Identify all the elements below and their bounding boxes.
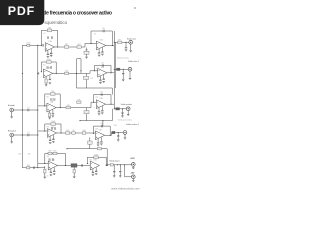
capacitor C26 bbox=[54, 127, 55, 130]
capacitor C24 bbox=[28, 132, 30, 136]
capacitor C13 bbox=[99, 79, 101, 82]
capacitor C34 bbox=[49, 158, 50, 161]
resistor R out E bbox=[110, 164, 113, 166]
terminal salida altos bbox=[129, 40, 133, 44]
wire B out cap drop bbox=[122, 69, 124, 73]
wire link E top bbox=[67, 149, 107, 166]
ground bbox=[85, 57, 88, 58]
junction A2 input bbox=[90, 43, 91, 44]
svg-text:10n: 10n bbox=[101, 54, 104, 56]
junction C out node bbox=[122, 108, 123, 109]
ground bbox=[101, 113, 104, 114]
junction D1 out bbox=[60, 132, 61, 133]
ground bbox=[95, 173, 98, 174]
junction D2 out bbox=[110, 135, 111, 136]
resistor R6 bbox=[118, 40, 122, 44]
wire D1 drop 2 bbox=[52, 135, 54, 139]
resistor R E1 bbox=[44, 169, 46, 173]
op-amp U2A bbox=[42, 66, 55, 77]
wire C2 drop 1 bbox=[98, 107, 100, 111]
svg-text:-15V: -15V bbox=[130, 173, 135, 175]
wire A2 drop 1 bbox=[98, 49, 100, 53]
junction bus L1 band B bbox=[22, 73, 23, 74]
svg-text:10n: 10n bbox=[100, 92, 103, 94]
svg-text:1u: 1u bbox=[28, 107, 30, 109]
junction link B left bbox=[76, 73, 77, 74]
wire C1 drop 2 bbox=[52, 110, 54, 114]
svg-text:10n: 10n bbox=[50, 143, 53, 145]
wire A1 drop 2 bbox=[50, 49, 52, 53]
junction bus L1 band D bbox=[22, 134, 23, 135]
capacitor C20 bbox=[100, 92, 103, 96]
svg-text:10K: 10K bbox=[90, 78, 93, 80]
wire D out cap drop bbox=[117, 133, 119, 136]
wire C2 out bbox=[106, 103, 115, 105]
resistor R out B bbox=[117, 68, 121, 70]
svg-text:R18: R18 bbox=[96, 68, 99, 70]
wire C out cap drop bbox=[122, 109, 124, 113]
capacitor C12 bbox=[101, 63, 104, 67]
ground bbox=[44, 177, 47, 178]
junction B out bus bbox=[114, 69, 115, 70]
wire D2 drop 1 bbox=[97, 139, 99, 143]
svg-text:U5B: U5B bbox=[94, 160, 97, 162]
resistor R link E bbox=[97, 148, 101, 150]
resistor R12 bbox=[51, 121, 56, 125]
op-amp U1B bbox=[95, 40, 108, 50]
PDF badge bbox=[0, 0, 44, 25]
wire D output bbox=[112, 133, 124, 136]
ground bbox=[129, 51, 132, 52]
resistor R B1 bbox=[45, 79, 47, 83]
resistor R7 bbox=[47, 59, 52, 63]
resistor R2 bbox=[47, 27, 52, 31]
op-amp U5B bbox=[88, 160, 101, 170]
capacitor C14 bbox=[103, 78, 105, 81]
svg-text:CN4: CN4 bbox=[114, 125, 117, 127]
wire C1 out to C2 bbox=[56, 102, 96, 107]
capacitor C28 bbox=[52, 138, 54, 141]
svg-text:Salida para medios: Salida para medios bbox=[118, 120, 132, 122]
junction C1 input bbox=[44, 105, 45, 106]
wire D2 input bbox=[94, 132, 96, 134]
svg-text:10n: 10n bbox=[50, 54, 53, 56]
capacitor C23 bbox=[121, 112, 123, 115]
svg-text:U2B: U2B bbox=[101, 67, 104, 69]
junction A2 out bbox=[112, 45, 113, 46]
wire D2 shunt bbox=[89, 137, 91, 148]
capacitor C in B bbox=[38, 72, 39, 75]
ground bbox=[50, 175, 53, 176]
ground bbox=[53, 174, 56, 175]
capacitor C29 bbox=[100, 123, 103, 127]
ground bbox=[124, 138, 127, 139]
resistor R1 bbox=[27, 43, 31, 47]
ground bbox=[99, 82, 102, 83]
capacitor C40 bbox=[95, 170, 97, 173]
resistor R16 bbox=[27, 165, 31, 169]
wire D2 feedback loop bbox=[94, 126, 111, 135]
svg-text:10n: 10n bbox=[100, 81, 103, 83]
svg-text:10n: 10n bbox=[97, 144, 100, 146]
wire B2 drop 2 bbox=[103, 75, 105, 79]
op-amp U5A bbox=[46, 159, 59, 170]
wire E terminal bottom stub bbox=[125, 176, 132, 178]
wire C1 drop 1b bbox=[49, 116, 51, 119]
ground bbox=[125, 50, 128, 51]
terminal salida medios bbox=[126, 107, 130, 111]
wire B2 out bbox=[107, 72, 114, 74]
resistor R C1 bbox=[48, 113, 50, 117]
resistor R D2 shunt bbox=[88, 141, 93, 144]
wire C output bbox=[114, 108, 126, 110]
capacitor C9 bbox=[47, 66, 48, 69]
op-amp U4A bbox=[46, 126, 59, 137]
resistor R inter E bbox=[71, 164, 77, 168]
resistor R3 bbox=[65, 44, 69, 48]
capacitor C27 bbox=[49, 139, 51, 142]
op-amp U4B bbox=[94, 129, 107, 139]
wire link top C bbox=[77, 88, 113, 95]
resistor R B2 shunt bbox=[84, 76, 89, 79]
capacitor C17 bbox=[51, 98, 52, 101]
svg-text:R12: R12 bbox=[43, 65, 46, 67]
wire B output bbox=[114, 68, 128, 70]
terminal V- bbox=[131, 175, 135, 179]
junction link B right bbox=[80, 70, 81, 71]
svg-text:U4B: U4B bbox=[99, 129, 102, 131]
junction B out node bbox=[123, 69, 124, 70]
capacitor C4 bbox=[50, 52, 52, 55]
capacitor C in A bbox=[42, 44, 43, 47]
wire E2 feedback loop bbox=[87, 157, 106, 165]
wire B1 drop 2 bbox=[49, 75, 51, 79]
wire C2 drop 2 bbox=[101, 106, 103, 110]
ground bbox=[101, 54, 104, 55]
resistor R8 bbox=[65, 71, 69, 75]
wire E bottom feed bbox=[22, 167, 44, 169]
ground bbox=[122, 80, 125, 81]
wire D2 drop 2 bbox=[100, 137, 102, 141]
svg-text:Salida medios: Salida medios bbox=[121, 104, 132, 106]
ground bbox=[10, 117, 13, 118]
resistor R15 bbox=[82, 130, 86, 134]
svg-text:1u: 1u bbox=[28, 132, 30, 134]
ground bbox=[73, 177, 76, 178]
wire E cap drop 2 bbox=[119, 165, 121, 171]
junction D2 input bbox=[93, 133, 94, 134]
wire A2 gain leg bbox=[86, 48, 88, 57]
ground bbox=[132, 168, 135, 169]
wire B2 drop 1 bbox=[99, 76, 101, 80]
wire E2 shunt bbox=[73, 167, 75, 169]
svg-text:U3B: U3B bbox=[100, 98, 103, 100]
wire E2 drop 1 bbox=[92, 169, 94, 172]
resistor R out C bbox=[116, 108, 120, 110]
terminal salida medios bajos bbox=[123, 131, 127, 135]
capacitor C5 bbox=[102, 28, 105, 32]
terminal V+ bbox=[131, 163, 135, 167]
svg-text:R28: R28 bbox=[96, 97, 99, 99]
svg-text:100n: 100n bbox=[27, 43, 31, 45]
resistor R9 bbox=[50, 91, 55, 95]
capacitor C36 bbox=[50, 171, 52, 174]
capacitor C2 bbox=[51, 36, 52, 39]
ground bbox=[52, 141, 55, 142]
capacitor C8 bbox=[125, 46, 127, 49]
ground bbox=[52, 116, 55, 117]
junction C out bus bbox=[114, 108, 115, 109]
junction A out node bbox=[125, 42, 126, 43]
capacitor C31 bbox=[100, 140, 102, 143]
svg-text:Salida altos 2: Salida altos 2 bbox=[128, 60, 139, 63]
ground bbox=[100, 144, 103, 145]
capacitor C42 bbox=[119, 170, 121, 173]
wire C2 shunt bbox=[86, 108, 88, 121]
svg-text:10n: 10n bbox=[45, 82, 48, 84]
wire entrada 1 gnd bbox=[11, 112, 13, 117]
junction link D left bbox=[79, 120, 80, 121]
ground bbox=[132, 180, 135, 181]
ground bbox=[47, 56, 50, 57]
junction A1 out bbox=[57, 46, 58, 47]
ground bbox=[98, 55, 101, 56]
wire E cap drop 1 bbox=[113, 165, 115, 171]
resistor R C2 shunt bbox=[84, 111, 89, 114]
ground bbox=[127, 114, 130, 115]
wire A out cap drop bbox=[125, 42, 127, 47]
wire D1 out to D2 bbox=[57, 132, 96, 134]
wire E cap drop 2b bbox=[119, 172, 121, 175]
wire D2 out bbox=[105, 134, 112, 136]
svg-text:10n: 10n bbox=[49, 117, 52, 119]
junction bus L2 y73.4 bbox=[37, 73, 38, 74]
svg-text:PDF: PDF bbox=[8, 4, 35, 18]
svg-text:10n: 10n bbox=[101, 63, 104, 65]
wire link B verticals bbox=[77, 59, 82, 88]
capacitor C22 bbox=[101, 109, 103, 112]
wire E1 shunt leg bbox=[44, 166, 46, 169]
wire D out drop 2 bbox=[117, 137, 119, 140]
junction E2 input bbox=[87, 163, 88, 164]
svg-text:de frecuencia o crossover acti: de frecuencia o crossover activo bbox=[43, 11, 112, 17]
svg-text:Entrada: Entrada bbox=[8, 104, 16, 107]
resistor R14 bbox=[72, 130, 76, 134]
wire A1 feedback loop bbox=[42, 30, 58, 47]
wire output bus R1 bbox=[113, 31, 115, 109]
junction link E left bbox=[66, 148, 67, 149]
junction C1 out bbox=[60, 107, 61, 108]
wire C1 feedback loop bbox=[45, 94, 60, 108]
resistor R19 bbox=[94, 154, 99, 158]
wire entrada 2 gnd bbox=[11, 137, 13, 142]
op-amp U3B bbox=[94, 98, 107, 108]
junction E1 out bbox=[65, 165, 66, 166]
wire C terminal gnd bbox=[127, 110, 129, 113]
wire D1 drop 1 bbox=[49, 136, 51, 140]
wire C2 feedback loop bbox=[94, 95, 112, 105]
resistor R out D bbox=[112, 131, 115, 133]
capacitor C39 bbox=[92, 171, 94, 174]
junction B2 out bbox=[110, 72, 111, 73]
resistor R11 bbox=[77, 99, 81, 103]
wire E1 input bbox=[38, 163, 48, 165]
junction E out bbox=[106, 165, 107, 166]
wire B terminal gnd bbox=[129, 71, 131, 78]
wire E1 drop 2 bbox=[53, 168, 55, 171]
junction A out bus bbox=[114, 42, 115, 43]
junction link E right bbox=[107, 165, 108, 166]
wire E power vertical bbox=[124, 165, 126, 177]
svg-text:Salida medios 2: Salida medios 2 bbox=[126, 124, 139, 126]
junction E power split bbox=[124, 164, 125, 165]
svg-text:4K7: 4K7 bbox=[78, 44, 81, 46]
ground bbox=[98, 114, 101, 115]
resistor R13 bbox=[66, 130, 70, 134]
junction entrada bus L1 bbox=[22, 109, 23, 110]
wire C out drop 2 bbox=[122, 113, 124, 115]
ground bbox=[121, 116, 124, 117]
wire link top D bbox=[80, 109, 112, 126]
ground bbox=[92, 174, 95, 175]
wire A output bbox=[114, 41, 129, 43]
svg-text:10n: 10n bbox=[47, 56, 50, 58]
op-amp U2B bbox=[96, 67, 109, 77]
svg-text:10n: 10n bbox=[102, 28, 105, 30]
wire E2 drop 2 bbox=[95, 168, 97, 171]
capacitor C15 bbox=[122, 72, 124, 75]
capacitor C41 bbox=[113, 170, 115, 173]
ground bbox=[119, 176, 122, 177]
svg-text:R22: R22 bbox=[46, 97, 49, 99]
wire B1 out to B2 bbox=[53, 71, 98, 74]
wire A2 drop 2 bbox=[101, 48, 103, 52]
capacitor C18 bbox=[54, 98, 55, 101]
wire D1 feedback loop bbox=[45, 124, 61, 133]
wire E1 out to E2 bbox=[58, 165, 91, 167]
svg-text:U1B: U1B bbox=[100, 40, 103, 42]
svg-text:Entrada 2: Entrada 2 bbox=[8, 129, 16, 132]
junction C2 out bbox=[110, 104, 111, 105]
junction C2 input bbox=[93, 102, 94, 103]
svg-text:10n: 10n bbox=[92, 174, 95, 176]
ground bbox=[117, 140, 120, 141]
capacitor C3 bbox=[47, 54, 52, 56]
ground bbox=[102, 81, 105, 82]
ground bbox=[97, 145, 100, 146]
capacitor C19 bbox=[52, 112, 54, 115]
junction bus L2 y167.7 bbox=[37, 167, 38, 168]
wire signal bus L2 bbox=[37, 45, 39, 167]
wire B1 feedback loop bbox=[41, 62, 56, 73]
junction bus L2 y135 bbox=[37, 134, 38, 135]
wire entrada 1 bbox=[13, 109, 38, 111]
ground bbox=[45, 85, 48, 86]
wire E output bbox=[106, 164, 132, 166]
ground bbox=[50, 55, 53, 56]
wire entrada 2 bbox=[13, 134, 38, 136]
ground bbox=[49, 142, 52, 143]
wire B2 shunt bbox=[86, 73, 88, 88]
capacitor C7 bbox=[101, 51, 103, 54]
capacitor C10 bbox=[50, 66, 51, 69]
wire E terminal bottom gnd bbox=[132, 179, 134, 181]
page mark bbox=[134, 7, 136, 9]
ground bbox=[10, 142, 13, 143]
resistor R4 bbox=[77, 44, 81, 48]
wire E1 drop 1 bbox=[50, 169, 52, 172]
junction entrada 2 bus L1 bbox=[22, 134, 23, 135]
op-amp U3A bbox=[45, 101, 58, 112]
svg-text:4K7: 4K7 bbox=[65, 44, 68, 46]
wire A terminal gnd bbox=[130, 44, 132, 50]
junction B1 out bbox=[56, 73, 57, 74]
wire B1 drop 1b bbox=[45, 83, 47, 84]
wire A2 feedback loop bbox=[91, 31, 112, 46]
wire E1 shunt leg b bbox=[44, 173, 46, 177]
svg-text:4K7: 4K7 bbox=[118, 40, 121, 42]
terminal salida medios altos bbox=[128, 67, 132, 71]
svg-text:10n: 10n bbox=[98, 114, 101, 116]
wire A1 out to A2 bbox=[55, 44, 97, 48]
wire D terminal gnd bbox=[124, 134, 126, 137]
svg-text:www.videorockola.com: www.videorockola.com bbox=[111, 186, 139, 190]
junction E node 2 bbox=[120, 164, 121, 165]
wire E2 shunt b bbox=[73, 173, 75, 176]
wire B out cap drop 2 bbox=[122, 74, 124, 79]
wire D1 input bbox=[38, 130, 48, 132]
wire A1 drop 1 bbox=[47, 50, 49, 54]
op-amp U1A bbox=[43, 40, 56, 51]
wire B1 drop 1 bbox=[45, 77, 47, 79]
capacitor C25 bbox=[51, 127, 52, 130]
junction E out node bbox=[117, 164, 118, 165]
capacitor C32 bbox=[117, 135, 119, 138]
capacitor C1 bbox=[48, 36, 49, 39]
ground bbox=[48, 118, 51, 119]
svg-text:R32: R32 bbox=[47, 127, 50, 129]
resistor R5 bbox=[84, 50, 89, 55]
wire output bus R2 bbox=[115, 42, 117, 88]
capacitor C30 bbox=[97, 141, 99, 144]
wire E1 feedback loop bbox=[45, 154, 66, 166]
capacitor C38 bbox=[81, 164, 82, 167]
resistor R E2 shunt bbox=[73, 170, 75, 173]
wire A2 out bbox=[106, 45, 115, 47]
resistor R17 bbox=[48, 151, 52, 155]
wire E cap drop 1b bbox=[113, 172, 115, 175]
junction D out node bbox=[118, 132, 119, 133]
wire C1 drop 1 bbox=[49, 111, 51, 113]
svg-text:squemático: squemático bbox=[44, 20, 67, 25]
wire B2 feedback loop bbox=[94, 66, 111, 73]
junction bus L2 y110 bbox=[37, 109, 38, 110]
svg-text:R38: R38 bbox=[95, 129, 98, 131]
junction B2 input bbox=[94, 70, 95, 71]
svg-text:R42: R42 bbox=[47, 156, 50, 158]
capacitor C6 bbox=[98, 52, 100, 55]
svg-text:Salida bajos: Salida bajos bbox=[109, 160, 119, 162]
svg-text:10n: 10n bbox=[46, 175, 49, 177]
terminal entrada 2 bbox=[10, 133, 14, 137]
capacitor C37 bbox=[53, 170, 55, 173]
junction bus L2 y45.3 bbox=[37, 45, 38, 46]
ground bbox=[129, 78, 132, 79]
ground bbox=[49, 83, 52, 84]
junction bus L1 band C bbox=[22, 109, 23, 110]
capacitor C16 bbox=[28, 107, 30, 111]
terminal entrada 1 bbox=[10, 108, 14, 112]
